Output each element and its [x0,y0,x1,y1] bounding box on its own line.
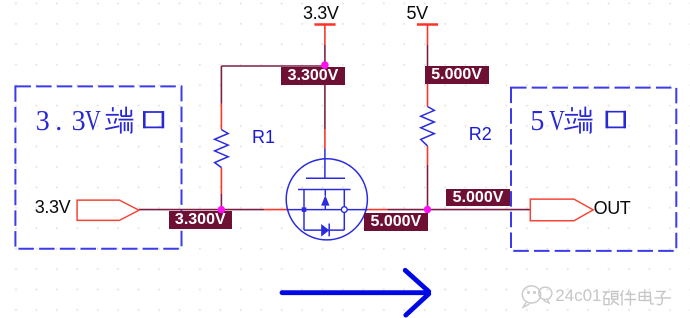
transistor Q1 main source-drain line [287,209,368,211]
wire: top horizontal net to R1 (maroon) [221,65,325,67]
件 [620,290,636,305]
label OUT [594,199,631,217]
watermark text 24c01 [555,287,601,304]
transistor Q1 channel rail [298,189,351,191]
voltage box 5.000V (top) [425,66,489,84]
wire: 5V supply vertical upper (red) [427,25,429,46]
label 5V (top supply) [407,4,428,22]
label 3.3V (left port) [35,198,70,216]
wire: port 3.3V to junction (maroon) [139,209,264,211]
wire: vertical from top net down to R1 (maroon) [220,66,222,104]
junction node dot (right net) [424,206,431,213]
junction node dot (3.3V gate net) [321,61,329,69]
resistor R2 zigzag [421,107,435,146]
transistor Q1 body arrow stem [324,206,326,210]
power bar 5V [417,23,438,25]
diode D1 triangle [321,224,329,237]
port connector 3.3V (left) [77,200,139,220]
wire: MOSFET source pin lead (red) [264,209,286,211]
transistor Q1 source junction square [302,207,307,212]
transistor Q1 body-diode right riser [343,213,345,231]
port connector OUT (right) [530,199,593,221]
transistor Q1 body-diode bottom line [304,229,344,231]
dashed box: 3.3V port region [15,86,181,248]
transistor Q1 drain open circle [341,207,347,213]
label R2 [469,125,492,143]
wire: MOSFET drain pin lead (red) [368,209,388,211]
wire: 3.3V supply vertical upper (red) [324,25,326,46]
transistor Q1 body-diode left riser [303,210,305,231]
label R1 [252,128,275,146]
arrow (signal direction) [282,270,429,315]
voltage box 3.300V (lower left) [169,211,232,229]
transistor Q1 body tick [324,190,326,196]
wire: R1 bottom pin lead (red) [220,168,222,195]
CJK glyph 口 (5V port title) [606,111,626,128]
voltage box 5.000V (lower middle) [364,213,428,230]
transistor Q1 drain tick [343,190,345,207]
label 3.3V (top supply) [303,4,338,22]
wire: R2 top pin lead (red) [427,84,429,107]
CJK glyph 端 (5V port title) [565,107,593,134]
wire: 3.3V supply vertical (maroon) down to gate pin [324,45,326,129]
watermark wechat logo [522,286,552,307]
voltage box 3.300V (top) [281,67,345,85]
wire: 5V supply vertical (maroon) into box [427,45,429,67]
电 [639,289,654,304]
wire: gate pin lead (red) [324,129,326,149]
dashed box: 5V port region [511,88,676,251]
硬 [603,291,620,305]
voltage box 5.000V (right) [446,189,510,206]
CJK glyph 口 (3.3V port title) [143,111,164,128]
watermark CJK 硬件电子 [603,289,672,305]
title 5V (serif, right dashed box) [530,108,544,136]
wire: R1 top pin lead (red) [220,104,222,130]
wire: R2 bottom pin lead (red) [427,146,429,165]
transistor Q1 source tick [303,190,305,210]
transistor Q1 MOSFET body circle [286,159,367,240]
wire: drain to right junction (maroon) [388,209,428,211]
CJK glyph 端 (3.3V port title) [105,107,133,134]
transistor Q1 gate lead (blue) [324,149,326,179]
power bar 3.3V [314,23,335,25]
wire: R2 bottom to junction (maroon) [427,165,429,210]
wire: R1 bottom to junction (maroon) [220,194,222,210]
junction node dot (left net) [218,206,225,213]
resistor R1 zigzag [215,130,229,168]
transistor Q1 body arrow [321,195,329,205]
diode D1 cathode bar [328,224,330,237]
wire: right junction to OUT port (maroon) [428,209,531,211]
子 [654,291,671,304]
title 3.3V (serif, left dashed box) [36,108,50,136]
transistor Q1 gate bar [306,177,345,179]
